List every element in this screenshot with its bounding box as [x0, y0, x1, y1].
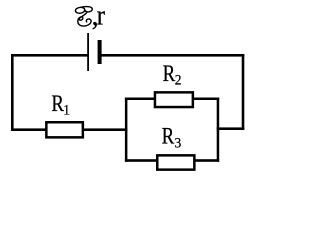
svg-text:R: R [163, 60, 176, 86]
wire: parallel block left vertical [125, 98, 128, 162]
wire: top left segment to battery [11, 54, 88, 57]
wire: bottom branch through R3 [125, 159, 219, 162]
wire: right vertical [242, 54, 245, 130]
svg-text:r: r [97, 0, 106, 31]
label E (script emf symbol), drawn as path [75, 7, 92, 26]
wire: top right segment from battery [100, 54, 245, 57]
svg-text:3: 3 [175, 135, 182, 152]
svg-text:R: R [162, 123, 175, 149]
label R3 [162, 123, 175, 149]
resistor R2 [155, 92, 193, 107]
svg-text:R: R [51, 90, 64, 116]
label R1 [51, 90, 64, 116]
svg-text:1: 1 [63, 102, 70, 119]
battery cell E,r: long thin plate [87, 33, 89, 71]
wire: top branch through R2 [125, 98, 219, 101]
wire: left vertical [11, 54, 14, 131]
resistor R3 [157, 155, 194, 169]
battery cell E,r: short thick plate [98, 40, 102, 64]
wire: parallel block right vertical [217, 98, 220, 162]
resistor R1 [46, 122, 83, 137]
wire: connector from right vertical to parallel block [217, 127, 245, 130]
wire: bottom main horizontal through R1 [11, 128, 127, 131]
label R2 [163, 60, 176, 86]
svg-text:2: 2 [175, 72, 182, 89]
